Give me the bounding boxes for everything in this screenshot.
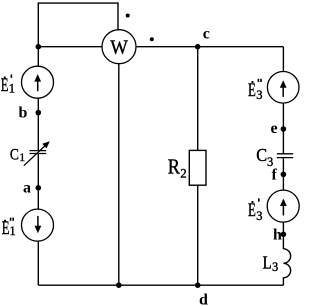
node d — [195, 282, 201, 288]
svg-text:d: d — [199, 292, 208, 306]
wire R2 branch vertical — [197, 47, 199, 286]
wattmeter W — [102, 30, 136, 64]
polarity dot (wattmeter right) — [150, 37, 154, 41]
wire right branch vertical middle (C3 bottom plate to L3 top) — [282, 158, 284, 249]
svg-text:3: 3 — [272, 260, 278, 274]
svg-text:3: 3 — [256, 209, 262, 223]
wire left branch vertical lower (C1 bottom plate to bottom bus) — [37, 154, 39, 285]
node junction (wattmeter bottom bus) — [116, 282, 122, 288]
node c — [195, 44, 201, 50]
node b — [36, 110, 42, 116]
resistor R2 — [189, 150, 206, 185]
label L3 — [263, 252, 279, 274]
svg-text:L: L — [263, 252, 272, 272]
node junction (left, top bus) — [36, 44, 42, 50]
node a — [36, 185, 42, 191]
svg-text:E: E — [248, 201, 256, 221]
svg-text:f: f — [272, 167, 278, 184]
source E3'' — [267, 72, 299, 104]
svg-text:E: E — [2, 219, 10, 239]
svg-text:b: b — [19, 105, 28, 122]
svg-text:h: h — [273, 226, 282, 243]
node e — [281, 126, 287, 132]
svg-text:2: 2 — [180, 167, 186, 181]
svg-text:a: a — [23, 180, 31, 197]
capacitor C3 — [277, 154, 293, 158]
svg-text:e: e — [271, 120, 278, 137]
source E3' — [267, 190, 299, 222]
label E1' — [1, 75, 15, 96]
label C3 — [256, 145, 273, 169]
svg-text:E: E — [1, 76, 9, 96]
source E1' — [22, 66, 54, 98]
label R2 — [168, 155, 187, 181]
svg-text:W: W — [110, 36, 128, 58]
svg-text:1: 1 — [9, 81, 15, 95]
wire left branch vertical upper (through E1' to C1 top plate) — [37, 47, 39, 150]
wire right branch vertical upper (through E3'' to C3 top plate) — [282, 47, 284, 154]
svg-text:C: C — [256, 145, 267, 165]
inductor L3 — [283, 249, 290, 285]
svg-text:1: 1 — [10, 224, 16, 238]
svg-text:C: C — [10, 146, 19, 163]
svg-text:1: 1 — [19, 152, 25, 164]
capacitor C1 (variable) — [24, 141, 50, 165]
source E1'' — [22, 209, 54, 241]
svg-text:3: 3 — [256, 88, 262, 102]
label E1'' — [2, 218, 16, 239]
node h — [281, 232, 287, 238]
svg-text:R: R — [168, 155, 180, 179]
wire top loop (left branch top to wattmeter) — [38, 3, 118, 47]
wire bottom bus — [38, 284, 283, 286]
node f — [281, 172, 287, 178]
svg-text:c: c — [203, 26, 210, 43]
label E3'' — [248, 79, 262, 102]
svg-text:E: E — [248, 81, 256, 101]
label C1 — [10, 146, 26, 164]
label E3' — [248, 198, 262, 223]
wire main horizontal bus a-c-right — [38, 46, 283, 48]
wire wattmeter voltage-coil vertical down to bottom bus — [118, 47, 120, 286]
polarity dot (wattmeter top) — [126, 14, 130, 18]
